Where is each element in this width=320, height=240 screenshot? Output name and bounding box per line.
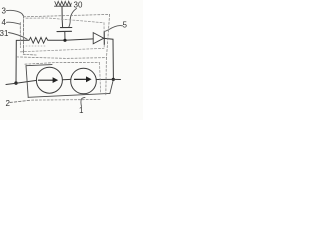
- wire circle2 to right node: [96, 78, 113, 80]
- leader for label 4: [7, 22, 21, 24]
- diode D cathode bar: [103, 32, 105, 45]
- current source B2 circle: [71, 68, 97, 94]
- battery box (solid rectangle, top edge fades on right): [26, 65, 52, 66]
- dotted inner line: [26, 45, 46, 47]
- dashed box 4 right edge: [103, 23, 105, 49]
- svg-text:5: 5: [123, 21, 128, 30]
- dashed box 4 left edge: [19, 23, 21, 48]
- wire left stub to battery box: [6, 80, 37, 84]
- capacitor C bottom plate: [57, 30, 72, 32]
- dashed box 2 right edge: [105, 58, 108, 96]
- wire resistor to left, down to node: [16, 40, 29, 83]
- svg-text:3: 3: [2, 7, 7, 16]
- leader for label 2 (dashed): [10, 100, 31, 102]
- wire resistor to diode (main horizontal): [48, 39, 93, 40]
- diode D triangle: [93, 33, 104, 44]
- leader for label 1: [81, 97, 85, 106]
- dashed box 3 bottom edge: [17, 57, 107, 59]
- dashed box 3 top edge: [24, 14, 110, 16]
- dashed box 4 bottom edge: [20, 48, 104, 52]
- resistor R (zigzag): [29, 37, 48, 43]
- dashed box 2 inner right edge: [100, 63, 101, 93]
- wire capacitor to main wire: [64, 32, 66, 41]
- wire right terminal stub: [113, 78, 120, 80]
- wire ground to capacitor top: [61, 7, 64, 28]
- node (junction dot) capacitor tap: [63, 39, 66, 42]
- arrow inside B1: [39, 79, 54, 81]
- svg-text:4: 4: [2, 18, 7, 27]
- capacitor C top plate: [61, 27, 72, 29]
- node (junction dot) right: [112, 78, 115, 81]
- dashed box 4 top edge: [26, 18, 104, 23]
- leader for label 31: [9, 33, 28, 40]
- wire between circles: [62, 78, 70, 80]
- leader for label 5: [104, 26, 122, 32]
- leader for label 30: [69, 9, 77, 28]
- svg-text:31: 31: [0, 29, 9, 38]
- dashed stub box3 bottom-left: [23, 53, 36, 56]
- node (junction dot) left: [14, 81, 17, 84]
- dashed box 3 left edge: [23, 15, 25, 54]
- ground (hatched bar): [55, 1, 72, 6]
- wire diode to right, down to box: [104, 38, 113, 79]
- dashed box 2 bottom edge: [32, 99, 102, 102]
- svg-text:1: 1: [79, 106, 84, 115]
- leader for label 3: [7, 10, 23, 15]
- dashed box 2 top edge: [25, 62, 100, 64]
- svg-text:2: 2: [6, 99, 11, 108]
- svg-text:30: 30: [74, 1, 83, 10]
- arrow inside B2: [75, 78, 87, 80]
- dashed box 3 right edge: [107, 14, 110, 57]
- current source B1 circle: [36, 67, 62, 93]
